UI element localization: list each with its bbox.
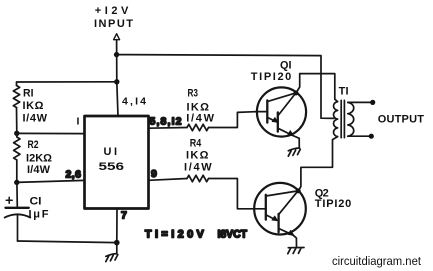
svg-text:I: I bbox=[77, 116, 80, 128]
wire secondary bottom lead bbox=[348, 135, 372, 137]
transistor Q1 TIP120 bbox=[257, 87, 306, 148]
IC U1 556 bbox=[85, 116, 149, 209]
capacitor C1 bbox=[5, 182, 31, 241]
label C1 polarity plus bbox=[6, 197, 12, 203]
wire bottom rail C1 to pin 7 ground bbox=[18, 241, 117, 243]
svg-text:UI: UI bbox=[104, 146, 118, 158]
wire R2 bottom to junction bbox=[16, 160, 18, 182]
junction dot top rail bbox=[114, 52, 119, 57]
svg-text:TI=I20V: TI=I20V bbox=[145, 228, 205, 240]
transformer T1 primary winding bbox=[334, 102, 338, 137]
svg-text:556: 556 bbox=[99, 161, 125, 173]
svg-text:+I2V: +I2V bbox=[95, 5, 129, 17]
svg-text:I/4W: I/4W bbox=[186, 113, 214, 125]
svg-text:QI: QI bbox=[280, 60, 292, 72]
label C1 value bbox=[29, 196, 49, 221]
svg-text:circuitdiagram.net: circuitdiagram.net bbox=[332, 254, 422, 268]
svg-text:2,6: 2,6 bbox=[66, 168, 82, 180]
wire +12V top rail to transformer center tap bbox=[117, 55, 334, 119]
transformer T1 core bbox=[341, 100, 344, 137]
svg-text:IKΩ: IKΩ bbox=[23, 100, 44, 112]
wire R3 to Q1 base bbox=[209, 112, 258, 128]
ground pin 7 bbox=[106, 243, 118, 262]
junction dot R2/C1 node bbox=[14, 180, 19, 185]
wire IC pin 9 to R4 bbox=[149, 179, 188, 181]
label R1 value bbox=[23, 87, 48, 124]
junction dot R1 branch bbox=[114, 79, 119, 84]
wire node to IC pin 1 bbox=[17, 132, 85, 134]
wire Q2 collector to transformer primary bottom bbox=[298, 137, 337, 191]
label R3 value bbox=[186, 88, 214, 125]
svg-text:7: 7 bbox=[121, 210, 127, 222]
svg-text:9: 9 bbox=[151, 168, 157, 180]
wire node to IC pin 2,6 bbox=[17, 180, 85, 182]
resistor R1 bbox=[13, 86, 19, 108]
svg-text:TIPI20: TIPI20 bbox=[251, 71, 291, 83]
ground Q2 emitter bbox=[288, 248, 304, 254]
resistor R3 bbox=[187, 124, 209, 130]
output terminal bottom bbox=[369, 134, 374, 139]
svg-text:TIPI20: TIPI20 bbox=[315, 198, 352, 210]
wire +12V vertical drop to IC pin 4,14 bbox=[117, 40, 118, 116]
svg-text:4,I4: 4,I4 bbox=[122, 96, 146, 108]
junction dot ground node bbox=[114, 240, 120, 246]
label R2 value bbox=[26, 139, 52, 176]
resistor R2 bbox=[14, 133, 20, 160]
svg-text:R4: R4 bbox=[190, 137, 202, 149]
svg-text:I/4W: I/4W bbox=[27, 164, 51, 176]
label R4 value bbox=[184, 137, 212, 173]
wire R1 bottom to junction bbox=[16, 108, 18, 134]
svg-text:R2: R2 bbox=[28, 139, 39, 151]
svg-text:RI: RI bbox=[23, 87, 34, 99]
svg-text:I8VCT: I8VCT bbox=[218, 228, 248, 240]
svg-text:OUTPUT: OUTPUT bbox=[378, 113, 425, 125]
resistor R4 bbox=[187, 175, 209, 181]
output terminal top bbox=[370, 100, 375, 105]
wire IC pin 5,8,12 to R3 bbox=[149, 127, 188, 130]
ground Q1 emitter bbox=[288, 148, 300, 156]
svg-text:R3: R3 bbox=[188, 88, 199, 100]
svg-text:IKΩ: IKΩ bbox=[186, 149, 209, 161]
svg-text:TI: TI bbox=[339, 86, 349, 98]
label Q1 bbox=[251, 60, 292, 84]
svg-text:5,8,I2: 5,8,I2 bbox=[150, 116, 182, 128]
wire R4 to Q2 base bbox=[209, 179, 255, 209]
svg-text:I/4W: I/4W bbox=[184, 162, 212, 174]
svg-text:CI: CI bbox=[30, 196, 42, 208]
wire Q1 collector to transformer primary top bbox=[296, 74, 338, 102]
svg-text:I/4W: I/4W bbox=[23, 112, 48, 124]
label +12V INPUT bbox=[94, 5, 133, 30]
svg-text:INPUT: INPUT bbox=[94, 18, 133, 30]
junction dot R1/R2 node bbox=[14, 131, 19, 136]
label Q2 bbox=[315, 187, 352, 209]
transistor Q2 TIP120 bbox=[254, 183, 306, 247]
svg-text:I2KΩ: I2KΩ bbox=[26, 152, 52, 164]
node +12V input arrow bbox=[114, 34, 120, 40]
wire secondary top lead bbox=[348, 101, 373, 103]
transformer T1 secondary winding bbox=[348, 102, 354, 136]
wire IC pin 7 drop bbox=[116, 209, 118, 243]
wire R1 top branch bbox=[17, 82, 117, 86]
svg-text:IμF: IμF bbox=[29, 209, 49, 221]
